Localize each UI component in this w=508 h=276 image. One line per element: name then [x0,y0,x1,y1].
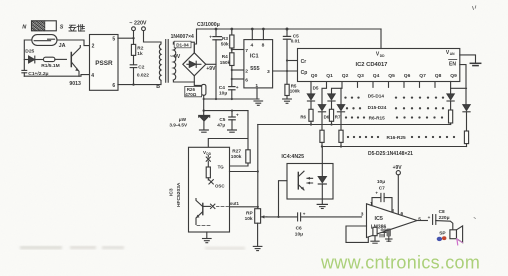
matrix dots row4 + label R16-R25 [347,135,455,141]
svg-text:PSSR: PSSR [95,60,113,67]
reed switch JA [32,35,66,49]
svg-text:3.9-4.5V: 3.9-4.5V [169,122,188,127]
svg-text:OSC: OSC [215,183,225,188]
svg-text:IC4:4N25: IC4:4N25 [281,154,304,160]
svg-text:AN: AN [450,52,455,56]
wire Vss to ground [460,55,476,63]
svg-text:5: 5 [418,216,421,222]
wire bus to 4N25 [321,147,323,164]
svg-text:100k: 100k [231,154,242,160]
svg-text:C7: C7 [379,186,385,192]
+9V terminal for amplifier [393,165,403,214]
wire Vdd to rail [380,29,382,49]
svg-text:D5-D14: D5-D14 [368,93,385,98]
transistor 9013 [69,46,81,88]
svg-text:D15-D24: D15-D24 [368,105,387,110]
wire 555 pin1 to ground rail [256,88,258,99]
matrix dots row3 + label R6-R15 [345,115,443,120]
svg-text:Q0: Q0 [311,73,318,79]
svg-text:100k: 100k [290,89,301,94]
svg-text:3: 3 [361,211,364,217]
low voltage rail [204,110,248,112]
ground symbol main [254,101,263,105]
svg-text:1N4007×4: 1N4007×4 [171,34,194,40]
CD4017 Q labels [311,73,457,79]
wire 220V right terminal to primary [144,31,162,42]
wire to CD4017 Cr [287,60,298,62]
faint scan smear bottom left [20,246,245,250]
svg-text:50k: 50k [221,42,229,47]
resistor R26 [185,84,206,110]
resistor R5 [285,84,300,99]
optocoupler IC4 4N25 [277,154,333,218]
wire rail to R27 / IC3 Vdd [208,111,248,150]
capacitor C2 [130,64,149,84]
svg-text:R3: R3 [222,36,228,41]
svg-text:9013: 9013 [69,81,81,87]
svg-text:6: 6 [245,77,248,83]
svg-text:SP: SP [439,230,446,236]
svg-text:R6: R6 [300,114,306,119]
svg-text:Q9: Q9 [450,73,457,79]
capacitor C5 0.01 [283,29,300,84]
wire 555 pin4 to rail [251,29,253,40]
svg-text:R27: R27 [232,148,241,154]
resistor R1 [41,57,66,69]
svg-text:out1: out1 [230,201,240,206]
wire R4/C4 node to 555 pin2 [232,69,244,71]
svg-text:HFC5203A: HFC5203A [176,182,182,207]
svg-text:Q7: Q7 [419,73,426,79]
CD4017 unused pin stubs [358,82,436,88]
wire bridge top to Vdd rail [194,29,196,53]
svg-text:R1/5.1M: R1/5.1M [41,63,59,69]
logo marks near SP [437,236,447,241]
ground R5 [283,99,292,103]
svg-text:2: 2 [92,43,95,49]
svg-text:DD: DD [206,152,211,156]
svg-text:6: 6 [112,83,115,89]
wire bridge bottom to R26 [194,76,203,86]
svg-text:R7: R7 [335,114,341,119]
bus R16-R25 outputs [322,146,467,148]
svg-text:+: + [236,86,239,91]
svg-text:Q4: Q4 [373,73,380,79]
svg-text:1k: 1k [137,51,143,57]
junction dots ground rail [203,98,233,100]
node Q1 column: diode D15 [318,82,329,131]
svg-text:+9V: +9V [393,165,403,171]
svg-text:Q8: Q8 [435,73,442,79]
wire secondary top to bridge [173,42,194,53]
amplifier zobel/bypass parts [371,227,392,243]
svg-text:C6: C6 [296,225,302,231]
svg-text:Q1: Q1 [326,73,333,79]
svg-text:R4: R4 [222,54,228,59]
ground rail (0V) [204,98,259,100]
zener diode DW 3.9-4.5V [169,111,209,133]
output + capacitor C8 [417,209,453,230]
audio signal wire to LM386 pin3 [267,216,362,218]
bridge rectifier D1-D4 [183,53,206,76]
speaker SP [439,226,462,245]
AC mains terminals ~220V [129,21,147,31]
svg-text:Q6: Q6 [404,73,411,79]
resistor R2 [131,44,143,64]
node Q9 column: diode D14 [447,82,454,125]
wire R3/R4 node to 555 pin7 [232,49,244,51]
svg-text:C2: C2 [138,64,144,70]
counter IC2 CD4017 [298,49,460,82]
wire 220V left terminal down [133,31,135,45]
node Q2 column: diode D6 [328,82,342,110]
matrix output bus down to RP [257,125,259,209]
wire 555 pin8 to rail [262,29,264,40]
feedback loop wire [346,226,368,242]
resistor R4 [220,53,234,87]
svg-text:EN: EN [449,61,456,67]
capacitor C3 1000u [197,22,222,99]
svg-text:8: 8 [262,42,265,48]
wire PSSR pin6 to transformer primary [118,80,161,84]
svg-text:Cp: Cp [301,70,308,76]
svg-text:10μ: 10μ [219,91,227,97]
svg-text:3: 3 [267,69,270,75]
capacitor C6 [295,212,306,238]
svg-text:47μ: 47μ [217,122,225,127]
svg-text:JA: JA [59,43,66,49]
svg-text:+9V: +9V [206,66,216,72]
amplifier IC5 LM386 [361,201,422,237]
+9V top rail [197,28,382,30]
resistor R16 column [320,130,324,146]
junction dots R-chain [231,48,233,80]
svg-text:www.cntronics.com: www.cntronics.com [320,253,480,273]
wire EN to matrix right column [460,65,466,105]
melody IC3 HFC5203A [169,147,230,232]
wire secondary bottom to bridge column [173,80,194,82]
magnet (N/S bar) [22,21,64,31]
svg-text:IC1: IC1 [250,54,259,60]
svg-text:C5: C5 [219,117,225,122]
svg-text:D25: D25 [25,49,34,55]
svg-text:Q2: Q2 [342,73,349,79]
wire out1 to RP node [230,206,258,208]
svg-text:RP: RP [246,210,253,216]
svg-text:IC3: IC3 [169,188,175,196]
svg-text:4: 4 [91,73,94,79]
svg-text:555: 555 [250,66,259,72]
svg-text:R16-R25: R16-R25 [387,135,407,141]
right column: diode D24 [451,88,471,146]
bus R6-R15 outputs [258,124,451,126]
svg-text:~ 9V: ~ 9V [170,54,181,60]
svg-text:10k: 10k [245,216,253,222]
svg-text:2: 2 [245,68,248,74]
label 磁铁 (magnet, drawn strokes) [69,25,85,32]
svg-text:4: 4 [251,42,254,48]
svg-text:D5: D5 [313,85,319,90]
svg-text:C3/1000μ: C3/1000μ [197,22,220,28]
svg-text:5: 5 [112,36,115,42]
wire PSSR pin5 to snubber rail [118,37,134,39]
svg-text:+: + [428,215,431,220]
node Q0 column: diode D5 [307,82,319,110]
svg-text:Q3: Q3 [357,73,364,79]
ground CD4017 [470,63,480,65]
svg-text:B: B [156,84,160,90]
svg-text:0.01: 0.01 [291,38,301,43]
capacitor C7 bootstrap [372,179,392,212]
wire node to 555 pin6 [232,78,244,80]
svg-text:Q5: Q5 [388,73,395,79]
svg-text:470Ω: 470Ω [185,92,197,97]
svg-text:Cr: Cr [301,59,307,65]
svg-text:+: + [303,212,306,217]
capacitor C5' 47u filter [217,111,239,133]
svg-text:D1-04: D1-04 [176,43,189,48]
label D1-D4 [174,41,191,48]
wire 555 pin3 to Cp [273,70,298,72]
svg-text:IC5: IC5 [375,216,383,222]
capacitor C4 [219,85,239,99]
svg-text:R2: R2 [137,46,143,52]
matrix dots row2 + label D15-D24 [346,105,444,110]
svg-text:10μ: 10μ [377,179,385,185]
svg-text:220μ: 220μ [439,215,450,221]
resistor R27 [224,148,250,166]
svg-text:6: 6 [401,211,404,217]
transformer B [156,40,176,91]
wire reed left to rail [24,40,32,70]
diode D25 [24,49,43,63]
IC3 internal transistor [196,199,239,226]
svg-text:TG: TG [218,165,225,170]
svg-text:10μ: 10μ [295,231,303,237]
svg-text:D5-D25:1N4148×21: D5-D25:1N4148×21 [368,151,413,157]
ground IC3 [203,232,212,243]
wire bottom rail to PSSR pin4 [24,75,89,77]
svg-text:7: 7 [245,48,248,54]
svg-text:C8: C8 [439,209,445,215]
svg-text:R6-R15: R6-R15 [369,115,386,120]
resistor R7 [329,109,341,124]
junction dots on C5 rail [286,59,288,72]
matrix dots row1 + label D5-D14 [344,93,444,98]
relay module PSSR [90,35,119,91]
wire bridge + output to C3 rail [206,63,216,65]
stray mark top right [473,6,476,219]
resistor R6 [300,109,313,124]
diode column under Q2 [337,88,344,146]
resistor R3 [221,29,234,53]
svg-text:+: + [375,190,378,195]
junction dots on top rail [215,28,289,31]
svg-text:S: S [60,24,64,30]
svg-text:IC2 CD4017: IC2 CD4017 [356,62,388,68]
svg-text:150k: 150k [220,60,231,65]
wire reed right to collector node [57,40,90,46]
capacitor C1 [22,70,49,77]
potentiometer RP 10k [245,209,267,251]
timer IC1 555 [244,40,273,89]
svg-text:C4: C4 [219,85,225,91]
svg-text:+: + [209,36,212,41]
svg-text:+: + [236,112,239,117]
svg-text:DD: DD [380,54,385,58]
svg-text:0.022: 0.022 [137,72,149,78]
svg-text:~ 220V: ~ 220V [129,21,147,27]
